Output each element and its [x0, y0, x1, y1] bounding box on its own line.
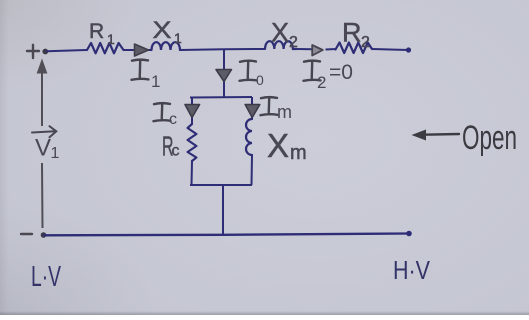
svg-text:X: X — [153, 17, 172, 44]
svg-text:V: V — [35, 135, 51, 162]
wire X1 to top node — [180, 49, 264, 50]
label Im — [261, 97, 278, 115]
wire shunt stem from top node — [223, 49, 225, 97]
current arrow Ic — [185, 105, 200, 118]
svg-text:X: X — [271, 18, 289, 48]
svg-text:2: 2 — [361, 34, 370, 51]
svg-text:H·V: H·V — [393, 255, 431, 285]
label X1 — [153, 17, 183, 46]
svg-text:1: 1 — [107, 31, 115, 47]
annotation open arrow — [412, 130, 460, 141]
label R2 — [342, 18, 370, 52]
inductor Xm — [246, 119, 252, 155]
source V1 up arrow — [37, 59, 48, 74]
svg-text:Open: Open — [462, 119, 517, 157]
svg-text:c: c — [169, 111, 177, 128]
wire left branch lower — [191, 161, 194, 185]
node LV top terminal dot — [42, 49, 48, 55]
wire X2 to arrow — [297, 48, 313, 50]
node LV bottom terminal dot — [41, 232, 47, 238]
label Rc — [162, 131, 180, 162]
node HV bottom terminal dot — [406, 231, 412, 237]
wire R1 to arrow — [124, 49, 152, 51]
svg-text:m: m — [290, 142, 307, 164]
svg-text:2: 2 — [289, 34, 298, 51]
resistor Rc — [188, 124, 197, 161]
wire right branch lower — [251, 155, 254, 185]
svg-text:R: R — [342, 18, 362, 48]
minus terminal bottom-left — [21, 233, 32, 235]
svg-text:1: 1 — [151, 72, 160, 91]
label I2 = 0 — [304, 61, 321, 81]
wire parallel box top — [190, 96, 252, 99]
resistor R2 — [336, 43, 373, 54]
svg-text:0: 0 — [256, 72, 264, 88]
wire top-left — [47, 50, 86, 51]
source V1 left wire — [41, 72, 43, 126]
current arrow I1 — [135, 44, 149, 56]
wire arrow to R2 — [326, 48, 337, 51]
svg-text:L·V: L·V — [31, 261, 61, 293]
label X2 — [271, 18, 298, 52]
wire R2 to HV terminal — [372, 49, 409, 50]
label Ic — [154, 103, 171, 121]
wire left branch upper — [191, 98, 193, 125]
current arrow Im — [245, 105, 260, 118]
label V1 with overbar arrow — [32, 126, 60, 162]
label I1 — [132, 60, 149, 80]
label Xm — [267, 127, 307, 164]
current arrow I2 — [312, 45, 323, 56]
svg-text:=0: =0 — [329, 61, 353, 84]
svg-text:1: 1 — [174, 30, 182, 46]
resistor R1 — [87, 43, 124, 53]
svg-text:R: R — [89, 20, 104, 43]
wire parallel box bottom — [190, 184, 252, 186]
inductor X1 — [152, 42, 181, 50]
wire bottom rail — [44, 234, 410, 236]
inductor X2 — [265, 41, 297, 49]
label R1 — [89, 20, 115, 47]
svg-text:c: c — [172, 143, 180, 160]
svg-text:m: m — [277, 102, 292, 122]
node HV top terminal dot — [406, 47, 411, 52]
label I0 — [240, 61, 257, 81]
svg-text:2: 2 — [317, 73, 326, 92]
svg-text:X: X — [267, 127, 289, 164]
plus terminal top-left — [27, 45, 39, 58]
svg-text:1: 1 — [51, 145, 60, 162]
current arrow I0 — [216, 70, 232, 82]
wire shunt stem to bottom rail — [222, 185, 224, 235]
wire right branch upper — [251, 97, 253, 119]
